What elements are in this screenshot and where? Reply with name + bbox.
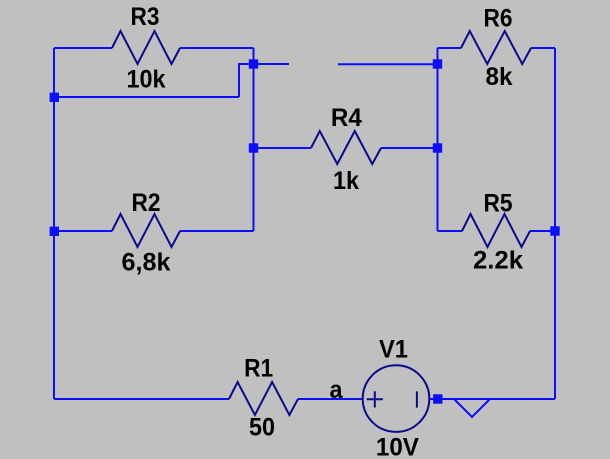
svg-text:R6: R6 [484,4,513,32]
svg-text:2.2k: 2.2k [473,247,523,275]
wire bottom row left of R1 [54,398,229,400]
svg-text:10k: 10k [127,65,166,93]
wire mid rail vertical [253,48,255,231]
svg-text:R4: R4 [331,104,362,132]
wire open stub left at node row [254,63,290,65]
svg-text:V1: V1 [379,335,408,363]
svg-text:a: a [330,376,344,404]
junction node right-mid rail upper [433,59,442,68]
svg-text:R2: R2 [132,189,161,217]
wire R6 right lead [531,47,555,49]
svg-text:R3: R3 [131,3,160,31]
resistor R3 [112,31,180,64]
wire top row left lead R3 [54,47,112,49]
wire open stub right [338,63,438,65]
wire second horizontal from left rail [54,96,239,98]
voltage source V1 circle [363,365,430,432]
junction node mid rail upper [249,59,258,68]
svg-text:6,8k: 6,8k [122,249,171,277]
wire R4 right lead [381,147,438,149]
svg-text:8k: 8k [486,63,513,91]
svg-text:R5: R5 [484,190,513,218]
wire R5 right lead [530,230,555,232]
resistor R1 [229,382,298,415]
wire right-mid rail vertical [437,48,439,231]
junction node left rail lower [50,227,59,236]
wire V1 to right rail [429,398,555,400]
wire R5 left lead [438,230,463,232]
resistor R6 [461,31,531,64]
wire R1 to V1 [298,398,363,400]
V1 plus sign [367,391,383,407]
svg-text:R1: R1 [244,355,273,383]
junction node V1 ground [433,394,442,403]
svg-text:1k: 1k [333,167,359,195]
wire R4 left lead [254,147,312,149]
wire R6 left lead [438,47,462,49]
junction node right-mid rail R4 [433,143,442,152]
junction node right rail R5 [550,226,559,235]
resistor R5 [462,214,530,247]
junction node mid rail R4 [249,143,258,152]
wire right rail [554,48,556,399]
wire R2 right lead [180,230,254,232]
svg-text:10V: 10V [376,434,419,459]
ground [454,399,490,417]
resistor R4 [311,131,381,164]
V1 minus sign [416,391,418,407]
wire step vertical [239,64,254,97]
resistor R2 [112,214,180,247]
wire left rail [53,48,55,399]
junction node left rail upper [50,93,59,102]
svg-text:50: 50 [249,414,275,442]
wire top row right lead R3 [180,47,254,49]
wire R2 left lead [54,230,112,232]
